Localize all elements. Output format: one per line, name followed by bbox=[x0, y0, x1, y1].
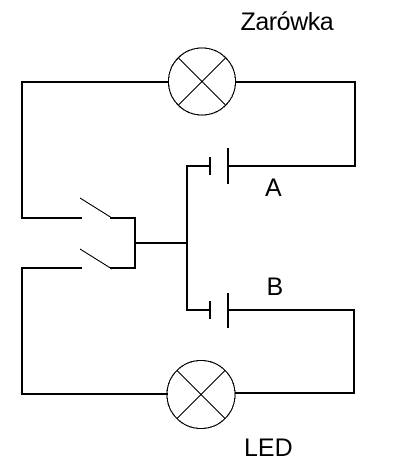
battery B long plate bbox=[227, 293, 229, 328]
switch S1 bottom lever bbox=[80, 249, 112, 269]
wire bottom lever to bar bbox=[110, 267, 136, 269]
wire battery B right bbox=[227, 309, 355, 311]
wire bottom lamp right bbox=[235, 392, 355, 394]
svg-text:A: A bbox=[265, 174, 282, 202]
wire switch common to node bbox=[134, 242, 188, 244]
lamp X2 cross line 2 bbox=[177, 371, 225, 419]
wire top lever to bar bbox=[110, 217, 136, 219]
svg-text:B: B bbox=[267, 273, 284, 301]
battery B short plate bbox=[209, 301, 211, 319]
wire to switch bottom contact bbox=[21, 267, 82, 269]
svg-text:Zarówka: Zarówka bbox=[241, 8, 334, 36]
lamp X1 cross line 2 bbox=[178, 58, 225, 105]
wire mid vertical node bbox=[186, 165, 188, 311]
lamp X2 (LED) circle bbox=[167, 361, 235, 429]
switch S1 top lever bbox=[80, 198, 112, 218]
wire left upper vertical bbox=[21, 81, 23, 219]
battery A long plate bbox=[227, 148, 229, 184]
battery A short plate bbox=[209, 157, 211, 175]
wire battery A right bbox=[227, 165, 356, 167]
wire top lamp right bbox=[235, 81, 356, 83]
svg-text:LED: LED bbox=[244, 434, 293, 462]
wire battery B left bbox=[186, 309, 210, 311]
wire top lamp left bbox=[21, 81, 169, 83]
switch common bar bbox=[134, 217, 136, 269]
wire right upper vertical bbox=[354, 81, 356, 167]
lamp X1 cross line 1 bbox=[178, 58, 225, 105]
wire left lower vertical bbox=[21, 267, 23, 395]
wire bottom lamp left bbox=[21, 393, 168, 395]
wire to switch top contact bbox=[21, 217, 82, 219]
wire battery A left bbox=[186, 165, 210, 167]
lamp X2 cross line 1 bbox=[177, 371, 225, 419]
wire right lower vertical bbox=[353, 309, 355, 394]
lamp X1 (Zarowka) circle bbox=[169, 48, 236, 115]
